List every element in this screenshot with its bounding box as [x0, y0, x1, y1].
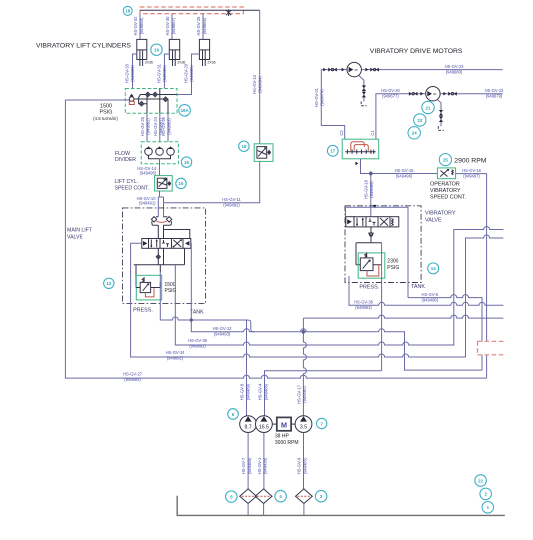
svg-text:(949492): (949492) — [223, 202, 240, 207]
svg-text:(949489): (949489) — [245, 383, 250, 400]
label HS-GV-7 — [241, 457, 252, 474]
svg-text:HS-GV-30: HS-GV-30 — [165, 16, 170, 36]
label HS-GV-1 — [257, 457, 268, 474]
quick disconnect QD motor1 right — [370, 68, 379, 72]
svg-text:OPERATOR: OPERATOR — [430, 182, 460, 188]
check valve D4 — [139, 102, 144, 107]
callout circle 4 — [275, 490, 287, 502]
check valve D3 — [163, 97, 168, 102]
wire V1 work ports down — [158, 248, 184, 264]
V1 center blocked — [162, 240, 169, 247]
label HS-GV-13 — [252, 74, 263, 94]
svg-text:(949496): (949496) — [396, 173, 413, 178]
svg-text:(949498): (949498) — [422, 297, 439, 302]
svg-text:LIFT CYL.: LIFT CYL. — [115, 179, 139, 185]
wire HS-GV-24 manifold to divider — [159, 113, 161, 142]
svg-text:2300: 2300 — [387, 258, 398, 264]
flow divider green dashed box — [141, 142, 178, 164]
svg-text:38 HP: 38 HP — [275, 434, 290, 440]
svg-text:HS-GV-17: HS-GV-17 — [297, 384, 302, 404]
svg-text:VALVE: VALVE — [425, 218, 442, 224]
cushion lock valve block — [152, 217, 171, 225]
wire HS-GV-12 tank bus — [191, 243, 482, 370]
svg-text:SPEED CONT.: SPEED CONT. — [115, 185, 150, 191]
svg-text:(949488): (949488) — [247, 457, 252, 474]
svg-text:1500: 1500 — [100, 103, 112, 109]
strainer S1 tail — [247, 504, 249, 516]
strainer S3 — [296, 489, 313, 504]
svg-text:MAIN LIFT: MAIN LIFT — [67, 228, 93, 234]
callout circle 21 — [422, 101, 434, 113]
V2 center blocked — [369, 218, 376, 225]
wire vibratory press drop — [381, 243, 383, 371]
shutoff valve X on header — [226, 9, 231, 16]
svg-text:16A: 16A — [181, 108, 190, 113]
operator speed control valve green box — [437, 168, 455, 179]
pump P1 8.7 — [240, 416, 257, 433]
label HS-GV-9 — [297, 457, 308, 474]
wire HS-GV-14 divider to lift speed control — [159, 159, 161, 176]
wire supply into manifold — [65, 99, 129, 101]
svg-text:HS-GV-27: HS-GV-27 — [123, 371, 143, 376]
supply header line HS-GV header — [140, 9, 260, 11]
svg-text:(949438): (949438) — [263, 457, 268, 474]
main 4-way valve V1 body — [149, 239, 184, 249]
text 1500 PSIG — [165, 282, 177, 294]
label HS-GV-10 — [137, 196, 157, 206]
drain bracket motor2 — [438, 126, 443, 130]
svg-text:VALVE: VALVE — [67, 235, 83, 241]
check valve below V2 — [369, 233, 374, 237]
strainer S2 tail — [263, 504, 265, 516]
svg-text:HS-GV-31: HS-GV-31 — [156, 63, 161, 83]
wire pump2 to vibratory press — [265, 371, 382, 416]
relief RV1 body — [140, 277, 150, 293]
flow control symbol (right) — [257, 147, 271, 159]
manifold 16A green dashed box — [125, 89, 177, 114]
label HS-GV-22 — [485, 88, 505, 99]
reservoir tank line — [177, 496, 505, 516]
vibratory valve dashed enclosure — [345, 206, 421, 283]
svg-text:3000 RPM: 3000 RPM — [275, 440, 299, 446]
label HS-GV-33 — [125, 63, 136, 83]
svg-text:17: 17 — [330, 149, 335, 154]
svg-text:HS-GV-13: HS-GV-13 — [252, 74, 257, 94]
drain bracket motor1 — [361, 102, 366, 106]
quick disconnect QD motor1 left — [328, 68, 337, 72]
wire pump1 suction — [247, 433, 249, 489]
svg-text:(949885): (949885) — [189, 65, 194, 82]
check valve D2 — [153, 92, 158, 97]
svg-text:SPEED CONT.: SPEED CONT. — [430, 195, 466, 201]
wire HS-GV-15 junction down to vibratory valve — [370, 174, 372, 217]
wire relief feed — [136, 282, 160, 288]
quick disconnect QD motor2 left — [409, 92, 418, 96]
flow control valve 15 (lift) green box — [155, 176, 173, 191]
svg-text:(949883): (949883) — [167, 118, 172, 135]
svg-text:(949887): (949887) — [171, 17, 176, 34]
svg-text:DIVIDER: DIVIDER — [115, 157, 136, 163]
svg-text:HS-GV-18: HS-GV-18 — [364, 179, 369, 199]
svg-text:PSIG: PSIG — [165, 288, 177, 294]
callout circle 6 — [228, 409, 239, 420]
divider section 1 — [145, 146, 153, 155]
callout circle 16A — [179, 105, 191, 117]
svg-text:HS-GV-33: HS-GV-33 — [125, 63, 130, 83]
junction node riser HS-GV-17 / tank bus — [301, 329, 306, 334]
label HS-GV-18 — [364, 179, 375, 199]
label HS-GV-29 — [184, 63, 195, 83]
svg-text:VIBRATORY DRIVE MOTORS: VIBRATORY DRIVE MOTORS — [370, 48, 463, 55]
operator speed control symbol — [440, 169, 453, 177]
callout circle 19 — [151, 44, 162, 55]
svg-text:(4.5 turns/in): (4.5 turns/in) — [93, 116, 118, 121]
svg-text:(949493): (949493) — [214, 332, 231, 337]
wire HS-GV-36 relief feed to bus — [349, 276, 503, 305]
wire pump2 suction — [263, 433, 265, 489]
svg-text:VIBRATORY: VIBRATORY — [430, 188, 461, 194]
svg-text:(949677): (949677) — [382, 94, 399, 99]
cylinder CYL3 — [199, 39, 209, 66]
svg-text:30: 30 — [433, 92, 437, 96]
svg-text:HS-GV-8: HS-GV-8 — [240, 383, 245, 400]
label HS-GV-30 — [165, 16, 176, 36]
label HS-GV-24 — [153, 116, 164, 136]
label riser HS-GV-17 — [297, 384, 308, 404]
wire HS-GV-28 drop to cylinder 3 — [202, 14, 204, 40]
svg-text:HS-GV-34: HS-GV-34 — [166, 350, 186, 355]
svg-text:14: 14 — [431, 266, 436, 271]
callout circle 1 — [482, 502, 494, 514]
svg-text:(949680): (949680) — [446, 69, 463, 74]
svg-text:(949495): (949495) — [140, 171, 157, 176]
cylinder CYL2 — [169, 39, 179, 66]
svg-text:2X36: 2X36 — [177, 61, 185, 65]
wire cushion bypass loop right — [164, 230, 190, 239]
V1 right operator — [183, 239, 191, 249]
needle valves motor2 drain — [439, 110, 443, 122]
svg-text:HS-GV-16: HS-GV-16 — [462, 168, 482, 173]
wire HS-GV-34 press bus — [131, 235, 504, 357]
callout circle 13 — [104, 278, 114, 288]
check valve D1 — [146, 92, 151, 97]
wire HS-GV-32 drop to cylinder 1 — [139, 14, 141, 40]
svg-text:(949889): (949889) — [130, 65, 135, 82]
svg-text:C1: C1 — [370, 130, 375, 136]
strainer S3 tail — [303, 504, 305, 516]
label HS-GV-16 — [462, 168, 482, 179]
svg-text:HS-GV-25: HS-GV-25 — [140, 116, 145, 136]
label HS-GV-26 — [161, 116, 172, 136]
relief RV2 red pilot — [367, 265, 379, 276]
relief RV2 body — [360, 253, 373, 271]
junction node HS-GV-15 / HS-GV-18 — [368, 171, 373, 176]
check valve below V1 — [156, 255, 160, 259]
callout circle 5 — [226, 491, 238, 503]
label HS-GV-14 — [137, 166, 157, 176]
text MAIN LIFT VALVE — [67, 228, 93, 241]
valve 17 green box — [342, 139, 379, 159]
cylinder CYL1 — [137, 39, 147, 66]
strainer S2 — [255, 489, 272, 504]
svg-text:VIBRATORY: VIBRATORY — [425, 211, 456, 217]
svg-text:13: 13 — [106, 281, 111, 286]
svg-text:24: 24 — [412, 131, 417, 136]
svg-text:(949893): (949893) — [355, 305, 372, 310]
svg-text:(949892): (949892) — [189, 343, 206, 348]
svg-text:(949674): (949674) — [320, 89, 325, 106]
text OPERATOR VIBRATORY SPEED CONT. — [430, 182, 466, 201]
needle valves motor1 drain — [362, 85, 366, 97]
manifold internal piping — [134, 89, 177, 114]
cushion check left — [151, 217, 156, 222]
label HS-GV-20 — [381, 88, 401, 99]
wire HS-GV-16 speed control to main return — [456, 174, 487, 379]
svg-text:HS-GV-26: HS-GV-26 — [161, 116, 166, 136]
text VIBRATORY VALVE — [425, 211, 456, 224]
relief valve RV1 green box — [136, 275, 161, 300]
text LIFT CYL. SPEED CONT. — [115, 179, 150, 192]
motor M1 — [347, 62, 361, 76]
wire HS-GV-20 motor2 supply — [376, 94, 426, 140]
divider section 2 — [156, 146, 164, 155]
junction node tank jog / bus — [189, 318, 194, 323]
red dashed enclosure around supply header — [140, 7, 244, 14]
cushion check right — [166, 217, 171, 222]
flow arrow motor1 return — [365, 68, 368, 72]
wire HS-GV-5 tank to connector — [408, 295, 482, 371]
wire HS-GV-25 manifold to divider — [146, 113, 148, 142]
svg-text:TANK: TANK — [190, 310, 204, 316]
svg-text:TANK: TANK — [411, 284, 425, 290]
flow control valve 15 (right) green box — [254, 144, 273, 162]
callout circle 18 — [123, 6, 132, 15]
wire HS-GV-11 right flow control to main valve — [164, 161, 260, 202]
wire HS-GV-33 cyl1 rod port — [133, 54, 137, 89]
wire HS-GV-10 valve to main lift valve — [158, 191, 163, 217]
manifold rail — [134, 265, 185, 288]
wire HS-GV-29 cyl3 rod port — [177, 54, 199, 95]
wire HS-GV-13 header to right flow control — [259, 10, 261, 144]
V2 right operator spring — [390, 217, 399, 227]
wire HS-GV-31 cyl2 rod port — [164, 54, 169, 89]
svg-text:(949888): (949888) — [139, 17, 144, 34]
svg-text:HS-GV-24: HS-GV-24 — [153, 116, 158, 136]
svg-text:18: 18 — [125, 9, 130, 14]
svg-text:HS-GV-32: HS-GV-32 — [133, 16, 138, 36]
wire HS-GV-23 motor1 return — [361, 69, 502, 71]
label HS-GV-15 — [395, 168, 415, 179]
check valve ball inlet — [129, 94, 134, 101]
wire HS-GV-21 motor1 supply — [321, 70, 347, 140]
flow arrow motor2 return — [443, 92, 446, 96]
svg-text:HS-GV-15: HS-GV-15 — [395, 168, 415, 173]
V1 left operator — [142, 239, 149, 249]
svg-text:16: 16 — [184, 160, 189, 165]
callout circle 14 — [428, 263, 439, 274]
svg-text:HS-GV-20: HS-GV-20 — [381, 88, 401, 93]
callout circle 25 — [439, 154, 451, 166]
svg-text:HS-GV-23: HS-GV-23 — [445, 64, 465, 69]
callout circle 3 — [315, 490, 327, 502]
cushion red crossover — [156, 221, 166, 222]
svg-text:8.7: 8.7 — [244, 424, 251, 430]
svg-text:30: 30 — [354, 68, 358, 72]
svg-text:PSIG: PSIG — [387, 265, 399, 271]
V1 position A arrows — [151, 240, 156, 248]
wire riser HS-GV-17 pump3 — [303, 318, 306, 416]
wire V1 right port to tank drop — [190, 242, 193, 244]
text 38 HP 3000 RPM — [275, 434, 299, 446]
pump P3 3.5 — [295, 416, 312, 433]
callout circle 15 right — [239, 141, 249, 151]
text 2300 PSIG — [387, 258, 399, 270]
svg-text:HS-GV-12: HS-GV-12 — [213, 326, 233, 331]
callout circle 15 lift — [176, 178, 186, 188]
motor M2 — [426, 87, 440, 101]
svg-text:15: 15 — [241, 144, 246, 149]
svg-text:2X36: 2X36 — [145, 61, 153, 65]
svg-text:HS-GV-1: HS-GV-1 — [257, 457, 262, 474]
divider section 3 — [167, 146, 175, 155]
label HS-GV-35 — [188, 338, 208, 349]
relief RV1 red pilot — [145, 288, 154, 297]
quick disconnect QD motor2 right — [448, 92, 457, 96]
label riser HS-GV-8 — [240, 383, 251, 400]
strainer S1 — [240, 489, 257, 504]
divider outlet bracket — [149, 155, 171, 159]
text FLOW DIVIDER — [115, 151, 136, 163]
svg-text:22: 22 — [478, 478, 483, 483]
motor1 case drain — [359, 76, 364, 102]
label HS-GV-28 — [196, 16, 207, 36]
label HS-GV-32 — [133, 16, 144, 36]
callout circle 23 — [414, 114, 426, 126]
V2 position A arrows — [357, 218, 363, 226]
wire main tank return upper — [160, 272, 246, 320]
label HS-GV-5 — [422, 292, 439, 303]
vibratory manifold rail — [356, 243, 382, 265]
svg-text:HS-GV-4: HS-GV-4 — [258, 383, 263, 400]
svg-text:HS-GV-9: HS-GV-9 — [297, 457, 302, 474]
wire pump3 suction — [303, 433, 305, 489]
svg-text:PRESS.: PRESS. — [133, 307, 153, 313]
callout circle 17 — [327, 145, 338, 156]
callout circle 2 — [480, 488, 492, 500]
label HS-GV-11 — [222, 197, 241, 207]
svg-text:HS-GV-36: HS-GV-36 — [354, 300, 374, 305]
label HS-GV-12 — [213, 326, 233, 337]
shaft motor to pump3 — [291, 423, 295, 425]
svg-text:(949679): (949679) — [486, 94, 503, 99]
svg-text:HS-GV-21: HS-GV-21 — [314, 87, 319, 107]
V2 position C cross — [380, 218, 388, 226]
svg-text:HS-GV-29: HS-GV-29 — [184, 63, 189, 83]
svg-text:PSIG: PSIG — [100, 109, 113, 115]
flow arrow into motor2 — [420, 92, 423, 96]
label riser HS-GV-4 — [258, 383, 269, 400]
svg-text:15: 15 — [179, 181, 184, 186]
svg-text:HS-GV-5: HS-GV-5 — [422, 292, 439, 297]
wire HS-GV-26 manifold to divider — [167, 113, 169, 142]
svg-text:2900 RPM: 2900 RPM — [454, 157, 486, 164]
callout circle 24 — [408, 127, 420, 139]
vibratory valve tank loop — [346, 207, 409, 297]
relief valve RV2 green box — [358, 253, 385, 278]
flow control symbol (lift) — [157, 178, 171, 188]
wire cushion to spool valve — [158, 225, 163, 239]
svg-text:HS-GV-35: HS-GV-35 — [188, 338, 208, 343]
svg-text:21: 21 — [426, 105, 431, 110]
svg-text:(949486): (949486) — [263, 383, 268, 400]
svg-text:(949497): (949497) — [463, 174, 480, 179]
svg-text:(949882): (949882) — [146, 118, 151, 135]
flow arrow valve17 outlet — [355, 162, 358, 166]
svg-text:25: 25 — [443, 158, 448, 163]
svg-text:(949499): (949499) — [369, 181, 374, 198]
main lift valve dashed enclosure — [123, 208, 206, 304]
svg-text:(949490): (949490) — [302, 386, 307, 403]
flow arrow motor1 supply — [323, 68, 326, 72]
svg-text:(949886): (949886) — [162, 65, 167, 82]
svg-text:1500: 1500 — [165, 282, 176, 288]
svg-text:23: 23 — [417, 118, 422, 123]
svg-text:19: 19 — [154, 48, 159, 53]
svg-text:(949494): (949494) — [258, 76, 263, 93]
svg-text:(949491): (949491) — [139, 200, 156, 205]
electric motor M box — [277, 417, 291, 430]
svg-text:16.5: 16.5 — [259, 424, 269, 430]
svg-text:(949886): (949886) — [202, 17, 207, 34]
flow arrow into motor1 — [342, 68, 345, 72]
callout circle 22 — [475, 475, 487, 487]
svg-text:C2: C2 — [339, 130, 344, 136]
wire V1 left port — [131, 243, 142, 265]
label HS-GV-25 — [140, 116, 151, 136]
label HS-GV-27 — [123, 371, 143, 382]
svg-text:HS-GV-28: HS-GV-28 — [196, 16, 201, 36]
wire HS-GV-35 bus — [175, 227, 503, 346]
svg-text:M: M — [281, 420, 287, 429]
wire HS-GV-17 top run — [303, 315, 503, 318]
svg-text:2X36: 2X36 — [207, 61, 215, 65]
label HS-GV-34 — [166, 350, 186, 361]
vibratory 4-way valve V2 body — [354, 217, 390, 227]
wire HS-GV-27 supply bus (left vertical and bottom run) — [65, 100, 486, 378]
V2 left operator solenoid — [346, 217, 354, 227]
pump P2 16.5 — [256, 416, 273, 433]
valve 17 spool rail — [345, 150, 375, 154]
wire HS-GV-22 motor2 return — [440, 93, 503, 95]
wire tank jog down — [247, 320, 256, 332]
svg-text:(949884): (949884) — [124, 377, 141, 382]
relief text 1500 PSIG (4.5 turns/in) — [93, 103, 118, 121]
callout circle 7 — [317, 418, 327, 428]
svg-text:(949891): (949891) — [167, 355, 184, 360]
valve 17 red pilot tubing — [351, 142, 369, 151]
orifice red square — [129, 101, 134, 104]
label HS-GV-31 — [156, 63, 167, 83]
callout circle 16 — [181, 157, 191, 167]
label HS-GV-36 — [354, 300, 374, 311]
wire riser HS-GV-8 pump1 — [246, 320, 248, 416]
label HS-GV-23 — [445, 64, 465, 74]
svg-text:HS-GV-22: HS-GV-22 — [485, 88, 505, 93]
wire HS-GV-30 drop to cylinder 2 — [171, 14, 173, 40]
label HS-GV-21 — [314, 87, 325, 107]
svg-text:HS-GV-7: HS-GV-7 — [241, 457, 246, 474]
flow arrow into vibratory valve — [373, 205, 377, 209]
